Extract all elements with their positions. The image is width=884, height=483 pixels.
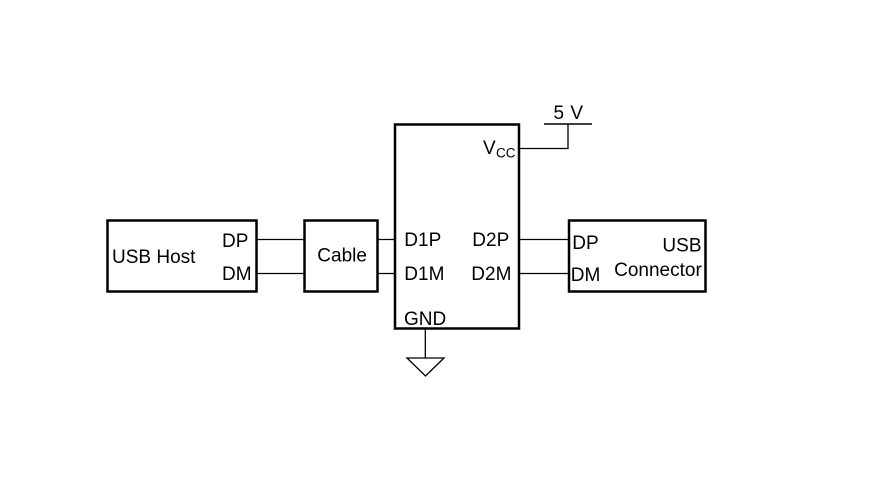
svg-text:DM: DM [571,265,601,286]
wire GND pin to ground [424,328,426,358]
wire DP: USB Host to Cable [257,239,305,241]
block USB Connector [569,221,706,292]
svg-text:GND: GND [404,309,446,330]
wire VCC to 5V supply [519,124,568,149]
svg-text:DP: DP [222,231,248,252]
svg-text:D2M: D2M [471,264,511,285]
svg-text:Cable: Cable [317,246,367,267]
svg-text:V: V [483,138,496,159]
pin VCC (U1) [483,138,516,161]
svg-text:DP: DP [572,233,598,254]
ground symbol [407,358,444,376]
wire D2M to USB Connector DM [519,273,569,275]
block USB Host [108,221,257,292]
power supply 5V rail bar [544,123,592,125]
block U1 USB redriver IC [395,125,519,329]
svg-text:CC: CC [496,146,516,161]
block Cable [305,221,378,292]
svg-text:D1M: D1M [404,264,444,285]
svg-text:USB Host: USB Host [112,247,196,268]
svg-text:D1P: D1P [404,230,441,251]
svg-text:D2P: D2P [472,230,509,251]
wire DM: USB Host to Cable [257,273,305,275]
svg-text:5 V: 5 V [554,103,584,124]
svg-text:Connector: Connector [614,260,702,281]
wire DM: Cable to D1M [378,273,396,275]
wire D2P to USB Connector DP [519,239,569,241]
wire DP: Cable to D1P [378,239,396,241]
svg-text:USB: USB [662,236,701,257]
svg-text:DM: DM [222,264,252,285]
